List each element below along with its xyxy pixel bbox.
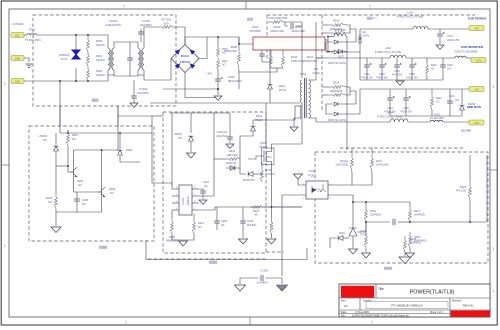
snubber top dashed line: [267, 14, 475, 16]
svg-text:10k/1W: 10k/1W: [96, 58, 105, 62]
wire c208 top: [216, 207, 218, 221]
ground R226: [362, 253, 371, 258]
wire r210 tops b: [282, 50, 284, 52]
resistor R213: [261, 166, 264, 182]
svg-text:104: 104: [447, 67, 452, 70]
wire zd210 l: [330, 238, 337, 248]
zener ZD210: [338, 236, 343, 241]
diode D208a: [334, 102, 338, 106]
wire C202 top: [261, 50, 263, 54]
wire C206 bottom: [217, 81, 219, 95]
svg-text:GND: GND: [15, 57, 21, 60]
wire r210 join: [271, 67, 283, 69]
wire c207 top: [199, 189, 203, 191]
svg-text:C209: C209: [247, 220, 254, 223]
IC201 pin6: [192, 202, 199, 204]
wire c204 down: [229, 139, 231, 143]
wire aux to D204: [253, 106, 295, 124]
svg-text:R204: R204: [96, 39, 103, 43]
svg-text:R 4R12 9.8 12.7Tx3uH: R 4R12 9.8 12.7Tx3uH: [377, 116, 403, 119]
wire c217 drop: [439, 29, 441, 33]
bridge BD201 diamond: [171, 45, 199, 73]
svg-text:R 4R12 9.8 (2.75~2k8): R 4R12 9.8 (2.75~2k8): [375, 50, 401, 54]
resistor R227: [409, 206, 412, 222]
wire sec bottom: [309, 118, 317, 122]
title block row2 dividers: [339, 298, 490, 310]
wire q202 coll: [74, 133, 118, 168]
svg-text:R 4R12 9.8 (2.75~2k8): R 4R12 9.8 (2.75~2k8): [397, 15, 423, 19]
wire r222: [431, 89, 433, 93]
svg-text:▓▓▓▓: ▓▓▓▓: [209, 260, 218, 264]
wire LF201 bottom left: [105, 70, 108, 81]
wire LF202 bottom right: [144, 70, 160, 80]
svg-text:Size: Size: [341, 300, 346, 303]
control section box: [163, 112, 266, 253]
wire opto pin4: [328, 172, 352, 185]
wire sec group2 left: [322, 86, 328, 88]
wire LF201 top left: [105, 35, 108, 48]
svg-text:▓▓▓▓: ▓▓▓▓: [384, 266, 393, 270]
wire coil in: [328, 36, 334, 38]
svg-text:File:: File:: [341, 314, 346, 317]
wire ctrl link: [152, 133, 172, 189]
junction dot vdr top: [75, 34, 77, 36]
wire rail B: [316, 57, 390, 59]
wire snubber top: [269, 50, 271, 83]
wire x172 down: [171, 113, 173, 185]
wire c209 bot: [242, 223, 244, 238]
svg-text:Revision: Revision: [452, 300, 462, 303]
wire c224 r: [398, 221, 410, 223]
IC201 pin3: [172, 202, 179, 204]
wire x266 down: [265, 103, 267, 148]
wire zd209 g: [461, 110, 463, 116]
wire zd202 down: [55, 151, 57, 193]
svg-text:Q202: Q202: [77, 179, 84, 183]
IC201 pin7: [192, 195, 199, 197]
svg-text:(C6R000): (C6R000): [410, 242, 421, 245]
svg-text:▓▓▓▓: ▓▓▓▓: [99, 245, 108, 249]
wire pin N: [24, 80, 60, 82]
wire ovp gnd stem: [55, 222, 57, 226]
wire r210 tops a: [270, 50, 272, 52]
wire snub link: [284, 21, 302, 23]
ground C204: [226, 144, 234, 148]
wire rail A2: [428, 28, 469, 30]
svg-text:PT-19085GB CN891LA: PT-19085GB CN891LA: [391, 303, 422, 307]
svg-text:R210: R210: [291, 55, 298, 59]
svg-text:NC: NC: [222, 63, 226, 66]
wire c212 g: [381, 67, 383, 80]
wire x152 link: [118, 115, 152, 117]
zone divider bottom: [249, 317, 251, 325]
svg-text:D203 NC: D203 NC: [226, 161, 237, 165]
wire LF202 top left: [128, 42, 138, 48]
wire sec top: [309, 22, 317, 80]
wire r212 bot: [183, 234, 194, 240]
svg-text:1: 1: [493, 247, 495, 251]
wire c217 gnd: [439, 37, 441, 44]
svg-text:222/250V: 222/250V: [140, 23, 152, 27]
capacitor C213: [394, 65, 400, 67]
wire bridge right: [199, 37, 207, 59]
wire sec group2 l2: [322, 94, 328, 96]
wire NTC to bridge: [173, 27, 185, 45]
wire d202 top: [119, 133, 121, 149]
wire opto pin3: [328, 195, 353, 212]
capacitor C207: [200, 191, 206, 193]
svg-text:R229: R229: [333, 20, 340, 23]
svg-text:NC: NC: [204, 184, 208, 188]
IC201 pin1: [172, 188, 179, 190]
svg-text:IC202: IC202: [309, 169, 316, 173]
transistor Q202: [70, 168, 74, 175]
wire q201 gate: [248, 156, 264, 159]
ground R228b: [406, 253, 415, 258]
capacitor C202 part: [259, 54, 265, 56]
svg-text:F201: F201: [29, 28, 36, 32]
svg-text:▓▓▓: ▓▓▓: [247, 17, 253, 21]
wire r207 down: [67, 146, 69, 160]
zone divider left: [1, 164, 9, 166]
wire q201 drain: [272, 103, 303, 148]
optocoupler arrows: [315, 188, 322, 192]
svg-text:100K/C2W: 100K/C2W: [291, 29, 305, 33]
wire fb node: [365, 222, 367, 232]
resistor R226: [365, 232, 368, 248]
svg-text:TL431: TL431: [360, 234, 368, 237]
svg-text:FR107: FR107: [255, 118, 263, 122]
wire d206a l: [326, 42, 333, 52]
capacitor C215: [409, 65, 415, 67]
svg-text:D201: D201: [126, 148, 133, 152]
wire c216 g: [405, 100, 407, 116]
wire coil out: [346, 36, 347, 38]
ground sec1: [396, 81, 404, 85]
wire c205 bot: [76, 201, 78, 212]
zener ZD204: [248, 172, 253, 177]
svg-text:220R/1206: 220R/1206: [330, 28, 343, 31]
wire r214 left: [214, 158, 226, 160]
wire ic bus: [199, 207, 302, 210]
wire q202 base: [68, 160, 70, 172]
svg-text:L204: L204: [387, 112, 393, 115]
resistor R217: [217, 58, 220, 69]
wire cy203 ldrop: [239, 278, 241, 284]
diode D204: [251, 126, 256, 131]
wire c204 top: [229, 113, 231, 137]
wire group2 join: [346, 87, 350, 95]
connector P1: [469, 26, 484, 31]
wire C202 bot: [262, 56, 271, 62]
wire main HV bus: [218, 37, 253, 44]
wire r221b down: [352, 172, 372, 185]
TL431 IC203: [349, 228, 357, 242]
wire group1 diode: [339, 29, 356, 42]
junction dot c206: [217, 36, 219, 38]
choke LF201 left coil: [108, 48, 110, 70]
wire feed down x347: [346, 37, 348, 151]
wire hv cont: [238, 37, 240, 45]
ground TL431: [349, 249, 358, 254]
ground OVP: [51, 227, 61, 233]
wire group1 gnd: [359, 42, 361, 80]
secondary bottom dashed line: [340, 147, 465, 149]
wire d206b r: [339, 51, 360, 53]
svg-text:104: 104: [455, 99, 460, 102]
svg-text:+12V: +12V: [476, 59, 482, 62]
wire r224 up: [469, 155, 471, 182]
wire tl431 top: [352, 212, 354, 228]
svg-text:+24V: +24V: [474, 122, 480, 125]
wire ctrl top bus: [170, 112, 230, 114]
capacitor CY203: [261, 275, 263, 281]
junction x328 a: [327, 36, 329, 38]
capacitor C221: [447, 101, 453, 103]
wire sec gnd bus: [360, 79, 443, 81]
zener ZD202: [54, 146, 59, 151]
capacitor C216: [403, 98, 409, 100]
zone divider top: [245, 1, 247, 9]
choke LF202 left coil: [138, 48, 140, 70]
svg-text:+5V: +5V: [474, 88, 479, 91]
wire aux top: [295, 105, 302, 107]
svg-text:R202: R202: [96, 54, 103, 58]
wire C206 top: [217, 37, 219, 46]
IC201 body: [179, 185, 192, 215]
wire tl431 ref: [357, 222, 366, 232]
title block red cell: [451, 311, 490, 317]
svg-text:IC201: IC201: [181, 197, 185, 204]
wire r213 up: [261, 162, 263, 166]
resistor R224: [469, 182, 472, 200]
fuse F203: [455, 56, 466, 58]
wire c214: [389, 89, 391, 98]
wire r221a up: [351, 148, 353, 152]
wire c215: [411, 58, 413, 65]
wire d203: [226, 159, 240, 168]
resistor R205: [55, 193, 58, 209]
junction r224: [469, 221, 471, 223]
resistor R208: [238, 45, 241, 70]
svg-text:0.33uF/275V: 0.33uF/275V: [105, 23, 121, 27]
capacitor C209: [240, 221, 246, 223]
capacitor CY201: [138, 32, 144, 34]
wire bus cont: [262, 206, 302, 208]
resistor R233: [328, 94, 346, 97]
svg-text:561/50V: 561/50V: [247, 224, 257, 227]
wire ovp top bus: [60, 132, 118, 134]
wire r212 top: [193, 214, 195, 218]
wire q203 coll: [101, 150, 103, 188]
ground CY202: [130, 103, 138, 107]
svg-text:Q201: Q201: [260, 141, 267, 145]
svg-text:+5V: +5V: [474, 27, 479, 30]
svg-text:NC: NC: [110, 191, 114, 195]
wire gnd bracket: [146, 240, 307, 260]
resistor R210b: [282, 52, 285, 68]
resistor R229: [328, 24, 346, 27]
junction q201 src: [271, 206, 273, 208]
wire r224 down: [469, 200, 471, 222]
svg-text:R203: R203: [96, 69, 103, 73]
wire r220 top: [271, 207, 273, 218]
wire q202 emit: [73, 176, 75, 192]
IC201 pin4: [172, 209, 179, 211]
resistor R206: [171, 218, 174, 234]
wire zd to base: [56, 165, 68, 167]
svg-text:220R/1206: 220R/1206: [330, 90, 343, 93]
svg-text:▓▓▓: ▓▓▓: [92, 98, 99, 102]
wire r221b up: [371, 148, 373, 152]
inductor L204: [390, 119, 408, 122]
svg-text:R214: R214: [229, 149, 236, 153]
wire c213 g: [396, 67, 398, 80]
svg-text:B(+24B): B(+24B): [461, 129, 471, 133]
svg-text:+ 36V: + 36V: [206, 73, 213, 76]
svg-text:68uF/400V: 68uF/400V: [228, 79, 242, 83]
wire pin G: [24, 58, 29, 62]
wire bridge top up: [185, 37, 218, 45]
wire rail D: [316, 121, 390, 123]
wire group1 join: [346, 25, 350, 33]
svg-text:KBP206: KBP206: [180, 60, 191, 64]
wire opto down join: [281, 278, 283, 284]
capacitor C2s1: [359, 37, 361, 43]
wire c221: [449, 89, 451, 101]
svg-text:1: 1: [371, 320, 373, 324]
wire c211: [366, 58, 368, 65]
wire y103 to primary: [266, 102, 300, 104]
wire x118 up: [117, 106, 119, 133]
svg-text:NC: NC: [254, 214, 258, 217]
ground c209: [239, 239, 248, 244]
svg-text:D:\PROTEL99SE\POWER TL8A\TL8A.: D:\PROTEL99SE\POWER TL8A\TL8A.ddb Drawn …: [352, 314, 410, 317]
wire q201 src bus: [271, 186, 273, 207]
zener ZD209: [460, 105, 465, 110]
IC201 pin8: [192, 188, 199, 190]
svg-text:ZD202: ZD202: [39, 134, 47, 138]
wire bus y103: [150, 102, 266, 104]
wire q201 source: [271, 166, 273, 187]
svg-text:10R/C2W: 10R/C2W: [226, 153, 238, 157]
wire r232: [426, 58, 428, 62]
wire snubber bot: [269, 89, 271, 103]
diode D203: [230, 166, 235, 171]
wire VDR branch top: [75, 35, 77, 50]
svg-text:L202: L202: [385, 46, 391, 50]
wire bottom bus EMI: [60, 80, 105, 82]
connector CON201 pin G: [11, 56, 24, 61]
wire sec group1 left: [322, 24, 328, 26]
svg-text:NC: NC: [178, 136, 182, 140]
resistor R214b: [226, 158, 240, 161]
ground C206: [214, 96, 222, 100]
wire sec x322 links: [316, 57, 322, 59]
svg-text:T201: T201: [300, 72, 307, 76]
wire x214 down: [213, 113, 215, 160]
title block logo red: [341, 286, 374, 298]
svg-text:R213: R213: [265, 168, 272, 172]
wire HV bus to transformer: [301, 22, 303, 78]
wire CY202 top: [133, 80, 135, 96]
junction ovp: [59, 80, 61, 82]
resistor R224b: [250, 206, 262, 209]
ctrl box bottom ext: [266, 251, 284, 253]
wire zd204 r: [253, 173, 262, 175]
svg-text:2573A05: 2573A05: [249, 29, 261, 33]
ground ctrl: [179, 241, 188, 246]
wire R208 bottom: [238, 70, 240, 89]
capacitor C2s: [291, 23, 293, 29]
diode D207: [339, 50, 343, 54]
svg-text:R212: R212: [198, 222, 205, 225]
wire rail C: [360, 88, 469, 90]
wire x118 gap: [117, 106, 119, 126]
capacitor C212: [379, 65, 385, 67]
svg-text:R228: R228: [333, 82, 340, 85]
wire c215 g: [411, 67, 413, 80]
wire r220 bot: [271, 234, 273, 238]
wire LF202 bottom left: [128, 70, 138, 76]
optocoupler IC202 box: [306, 181, 328, 199]
wire r232 g: [426, 76, 428, 80]
wire r227 g: [409, 248, 411, 252]
capacitor C205: [74, 199, 80, 201]
wire sec gnd bus2: [390, 115, 462, 117]
svg-text:▓▓▓(5V): ▓▓▓(5V): [367, 16, 378, 20]
thermistor NTC201: [159, 26, 173, 29]
svg-text:BD201: BD201: [181, 54, 190, 58]
wire rail B2: [406, 57, 455, 59]
diode D202: [118, 150, 123, 155]
ground r220: [267, 239, 276, 244]
wire q203 base: [74, 191, 98, 193]
svg-text:Sheet 1 of 1: Sheet 1 of 1: [430, 311, 444, 314]
junction c224: [409, 221, 411, 223]
wire bus y89: [163, 88, 218, 90]
wire r206 top: [171, 210, 173, 218]
IC201 pin5: [192, 209, 199, 211]
snubber left dashed line: [266, 15, 268, 60]
capacitor C208: [214, 221, 220, 223]
wire rail D2: [408, 121, 430, 123]
wire opto pin1: [298, 179, 306, 185]
svg-text:NC: NC: [78, 183, 82, 187]
EMI filter section box: [33, 15, 176, 106]
svg-text:NC: NC: [43, 138, 47, 142]
resistor R207: [67, 130, 70, 146]
resistor R212: [193, 218, 196, 234]
wire c224 l: [366, 221, 390, 223]
svg-text:10k/1W: 10k/1W: [96, 43, 105, 47]
wire aux bottom: [294, 118, 302, 126]
wire OVP feed: [59, 81, 61, 133]
resistor R225: [404, 236, 407, 252]
wire c213: [396, 58, 398, 65]
svg-text:NC: NC: [72, 137, 76, 141]
svg-text:ZD203: ZD203: [174, 132, 182, 136]
IC201 pin2: [172, 195, 179, 197]
svg-text:NC: NC: [82, 202, 86, 206]
ground C207: [199, 200, 207, 204]
wire r222 g: [431, 110, 433, 116]
svg-text:17-Nov-2009: 17-Nov-2009: [355, 311, 369, 314]
junction fb3: [352, 201, 354, 203]
wire c220: [442, 58, 444, 65]
junction dot r chain bottom: [87, 80, 89, 82]
wire coil stub l: [325, 39, 328, 41]
